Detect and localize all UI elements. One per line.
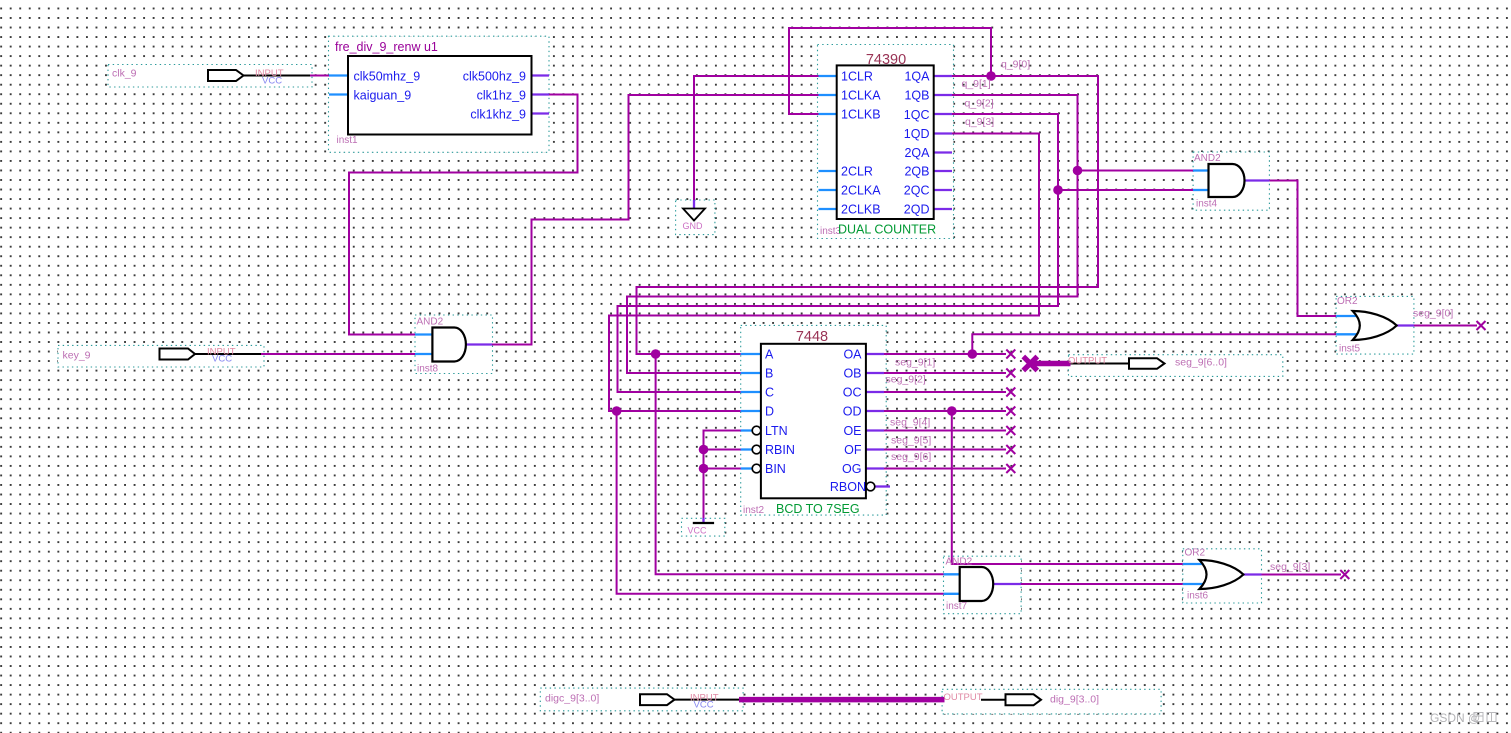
svg-text:1CLKA: 1CLKA bbox=[841, 89, 881, 103]
wire branch q_9[2] to AND2 inst4 input2 bbox=[1058, 189, 1193, 191]
x mark OG bbox=[1006, 464, 1015, 473]
pin stub 1QC bbox=[934, 113, 952, 115]
junction dot RBIN row bbox=[699, 445, 709, 455]
svg-text:OR2: OR2 bbox=[1337, 296, 1358, 307]
pin stub LTN bbox=[741, 429, 752, 431]
selection box key_9 input pin bbox=[58, 345, 264, 367]
junction dot q_9[1] to inst4 bbox=[1073, 166, 1083, 176]
svg-text:LTN: LTN bbox=[765, 424, 788, 438]
pin stub 2QA bbox=[934, 151, 952, 153]
svg-text:D: D bbox=[765, 405, 774, 419]
wire net seg_9[1] OA bbox=[884, 353, 1006, 355]
svg-text:seg_9[1]: seg_9[1] bbox=[895, 357, 935, 369]
svg-text:2QC: 2QC bbox=[904, 184, 930, 198]
svg-text:seg_9[6]: seg_9[6] bbox=[891, 451, 931, 463]
block 7448 body bbox=[761, 344, 866, 499]
svg-text:OB: OB bbox=[843, 367, 861, 381]
svg-text:fre_div_9_renw u1: fre_div_9_renw u1 bbox=[335, 40, 438, 54]
svg-text:kaiguan_9: kaiguan_9 bbox=[354, 89, 412, 103]
pin stub OD bbox=[866, 410, 884, 412]
svg-text:VCC: VCC bbox=[694, 700, 714, 711]
bus wire bold X to seg_9 output pin bbox=[1033, 361, 1071, 367]
svg-text:OC: OC bbox=[843, 386, 862, 400]
svg-text:clk500hz_9: clk500hz_9 bbox=[463, 70, 526, 84]
pin stub RBIN bbox=[741, 448, 752, 450]
input stub AND2 inst8 in2 bbox=[415, 353, 433, 355]
input stub AND2 inst4 in1 bbox=[1193, 169, 1209, 171]
junction dot D row to inst7 bbox=[612, 406, 622, 416]
pin stub 7448 A bbox=[741, 353, 761, 355]
input pin symbol digc_9 bbox=[640, 694, 739, 705]
input stub AND2 inst7 in2 bbox=[944, 593, 961, 595]
svg-text:1QD: 1QD bbox=[904, 127, 930, 141]
selection box VCC symbol bbox=[682, 518, 725, 536]
pin stub 7448 B bbox=[741, 372, 761, 374]
pin stub 2CLKA bbox=[819, 189, 838, 191]
svg-text:7448: 7448 bbox=[796, 329, 828, 345]
svg-text:2QD: 2QD bbox=[904, 203, 930, 217]
op gate OR2 inst6 bbox=[1199, 560, 1243, 589]
wire LTN RBIN BIN to VCC bbox=[704, 431, 752, 519]
pin stub clk1khz_9 bbox=[532, 112, 550, 114]
wire net OC bbox=[884, 391, 1006, 393]
bold x bus connector seg_9 bbox=[1023, 357, 1037, 371]
ground symbol GND bbox=[683, 209, 705, 221]
pin stub OA bbox=[866, 353, 884, 355]
svg-text:inst6: inst6 bbox=[1187, 591, 1209, 602]
x mark seg_9[3] bbox=[1340, 570, 1349, 579]
bus wire digc_9 input to dig_9 output bbox=[739, 697, 945, 703]
svg-text:BIN: BIN bbox=[765, 462, 786, 476]
x mark seg_9[6] bbox=[1006, 445, 1015, 454]
watermark cjk glyphs bbox=[1474, 713, 1496, 722]
pin stub 7448 D bbox=[741, 410, 761, 412]
wire net seg_9[5] OE bbox=[884, 430, 1006, 432]
output pin symbol seg_9 bbox=[1071, 358, 1165, 369]
wire branch q_9[1] to AND2 inst4 input1 bbox=[1078, 170, 1194, 172]
output pin symbol dig_9 bbox=[981, 694, 1041, 705]
pin stub clk500hz_9 bbox=[532, 74, 550, 76]
svg-text:OR2: OR2 bbox=[1185, 548, 1206, 559]
pin stub 1QB bbox=[934, 94, 952, 96]
svg-text:1QB: 1QB bbox=[904, 89, 929, 103]
svg-text:seg_9[5]: seg_9[5] bbox=[891, 435, 931, 447]
svg-text:dig_9[3..0]: dig_9[3..0] bbox=[1050, 694, 1099, 706]
selection box clk_9 input pin bbox=[108, 65, 312, 88]
wire net OG bbox=[884, 468, 1006, 470]
wire OR2 inst6 output seg_9[3] bbox=[1262, 574, 1342, 576]
svg-text:2CLKB: 2CLKB bbox=[841, 203, 881, 217]
input stub OR2 inst5 in2 bbox=[1336, 333, 1359, 335]
svg-text:1CLR: 1CLR bbox=[841, 70, 873, 84]
input pin symbol key_9 bbox=[160, 349, 262, 360]
svg-text:2CLR: 2CLR bbox=[841, 165, 873, 179]
svg-text:seg_9[2]: seg_9[2] bbox=[886, 374, 926, 386]
junction dot q_9[2] to inst4 bbox=[1053, 185, 1063, 195]
svg-text:clk50mhz_9: clk50mhz_9 bbox=[354, 70, 421, 84]
block 74390 body bbox=[837, 65, 934, 219]
svg-text:seg_9[0]: seg_9[0] bbox=[1413, 308, 1453, 320]
svg-text:q_9[1]: q_9[1] bbox=[962, 78, 991, 90]
wire net q_9[1] 1QB to 7448 B bbox=[627, 95, 1078, 373]
svg-text:1CLKB: 1CLKB bbox=[841, 108, 881, 122]
wire clk_9 pin to clk50mhz_9 bbox=[310, 75, 329, 77]
selection box AND2 inst8 bbox=[415, 315, 493, 374]
wire net seg_9[6] OF bbox=[884, 449, 1006, 451]
wire branch q_9[3] to AND2 inst7 input2 bbox=[617, 411, 944, 594]
wire net q_9[3] 1QD to 7448 D bbox=[609, 134, 1039, 412]
selection box seg_9 output pin bbox=[1069, 355, 1283, 377]
wire net q_9[0] 1QA to 7448 A bbox=[637, 76, 1099, 354]
svg-text:B: B bbox=[765, 367, 773, 381]
svg-text:RBIN: RBIN bbox=[765, 443, 795, 457]
wire OR2 inst5 output seg_9[0] bbox=[1414, 325, 1477, 327]
svg-text:2QB: 2QB bbox=[904, 165, 929, 179]
wire net seg_9[4] OD bbox=[884, 410, 1006, 412]
pin bubble LTN bbox=[752, 426, 761, 435]
pin bubble RBON bbox=[866, 482, 875, 491]
pin stub BIN bbox=[741, 467, 752, 469]
pin stub 1QD bbox=[934, 132, 952, 134]
svg-text:1QA: 1QA bbox=[904, 70, 930, 84]
output stub AND2 inst8 bbox=[466, 343, 492, 345]
svg-text:inst7: inst7 bbox=[946, 601, 968, 612]
svg-text:q_9[2]: q_9[2] bbox=[965, 98, 994, 110]
op gate AND2 inst8 bbox=[432, 328, 466, 362]
selection box block u1 fre_div_9_renw bbox=[329, 36, 550, 152]
selection box digc_9 input pin bbox=[540, 688, 743, 711]
output stub OR2 inst6 bbox=[1241, 573, 1262, 575]
wire net q_9[2] 1QC to 7448 C bbox=[618, 114, 1059, 392]
x mark OC bbox=[1006, 388, 1015, 397]
input pin symbol clk_9 bbox=[208, 70, 310, 81]
wire 1CLKB to node q_9[0] top loop bbox=[789, 28, 991, 114]
svg-text:OA: OA bbox=[843, 348, 862, 362]
x mark seg_9[5] bbox=[1006, 426, 1015, 435]
junction dot OA row to inst5 bbox=[968, 349, 978, 359]
junction dot OD row to inst6 bbox=[947, 406, 957, 416]
junction dot A row to inst7 bbox=[651, 349, 661, 359]
pin stub clk1hz_9 bbox=[532, 93, 550, 95]
wire net seg_9[2] OB bbox=[884, 372, 1006, 374]
pin stub 1CLR bbox=[819, 75, 838, 77]
pin stub 2CLKB bbox=[819, 208, 838, 210]
pin stub 7448 C bbox=[741, 391, 761, 393]
wire AND2 inst4 output to OR2 inst5 input1 bbox=[1269, 181, 1336, 317]
pin stub clk50mhz_9 bbox=[329, 74, 348, 76]
input stub OR2 inst5 in1 bbox=[1336, 315, 1359, 317]
svg-text:OD: OD bbox=[843, 405, 862, 419]
wire branch OA to OR2 inst5 input2 bbox=[972, 334, 1336, 354]
power symbol VCC bar bbox=[693, 522, 714, 524]
selection box AND2 inst7 bbox=[944, 556, 1022, 614]
pin stub OE bbox=[866, 429, 884, 431]
svg-text:clk_9: clk_9 bbox=[112, 68, 137, 80]
wire GND to 1CLR bbox=[694, 76, 819, 201]
x mark seg_9[2] bbox=[1006, 369, 1015, 378]
junction dot BIN row bbox=[699, 464, 709, 474]
svg-text:VCC: VCC bbox=[688, 526, 708, 536]
x mark seg_9[1] bbox=[1006, 350, 1015, 359]
pin stub OF bbox=[866, 448, 884, 450]
selection box 74390 counter bbox=[818, 45, 954, 239]
svg-text:digc_9[3..0]: digc_9[3..0] bbox=[545, 693, 599, 705]
output stub AND2 inst4 bbox=[1245, 179, 1270, 181]
pin stub RBON bbox=[875, 485, 890, 487]
wire branch OD to OR2 inst6 input1 bbox=[952, 411, 1183, 564]
pin bubble BIN bbox=[752, 464, 761, 473]
wire key_9 pin to AND2 inst8 input2 bbox=[261, 353, 415, 355]
stub VCC symbol bbox=[702, 518, 704, 523]
block u1 fre_div_9_renw body bbox=[348, 56, 532, 135]
x mark seg_9[4] bbox=[1006, 407, 1015, 416]
svg-text:74390: 74390 bbox=[866, 52, 906, 68]
pin stub 1QA bbox=[934, 75, 952, 77]
svg-text:clk1khz_9: clk1khz_9 bbox=[470, 108, 526, 122]
svg-text:A: A bbox=[765, 348, 774, 362]
op gate AND2 inst4 bbox=[1209, 164, 1245, 197]
svg-text:seg_9[6..0]: seg_9[6..0] bbox=[1175, 357, 1227, 369]
svg-text:OF: OF bbox=[844, 443, 862, 457]
pin stub 1CLKB bbox=[819, 113, 838, 115]
svg-text:AND2: AND2 bbox=[1194, 153, 1221, 164]
svg-text:AND2: AND2 bbox=[946, 557, 973, 568]
selection box OR2 inst6 bbox=[1183, 549, 1262, 603]
input stub OR2 inst6 in1 bbox=[1183, 563, 1206, 565]
svg-text:OUTPUT: OUTPUT bbox=[944, 692, 983, 703]
svg-text:OG: OG bbox=[842, 462, 861, 476]
svg-text:seg_9[3]: seg_9[3] bbox=[1270, 561, 1310, 573]
junction dot q_9[0] at 1QA bbox=[986, 71, 996, 81]
stub GND symbol bbox=[693, 200, 695, 208]
svg-text:inst5: inst5 bbox=[1339, 344, 1361, 355]
svg-text:RBON: RBON bbox=[830, 480, 866, 494]
pin stub 2QD bbox=[934, 208, 952, 210]
selection box OR2 inst5 bbox=[1336, 296, 1414, 354]
wire clk1hz_9 to AND2 inst8 input1 bbox=[349, 95, 578, 335]
selection box GND symbol bbox=[676, 200, 715, 235]
selection box AND2 inst4 bbox=[1193, 152, 1269, 210]
svg-text:2QA: 2QA bbox=[904, 146, 930, 160]
pin bubble RBIN bbox=[752, 445, 761, 454]
output stub OR2 inst5 bbox=[1397, 324, 1414, 326]
svg-text:inst1: inst1 bbox=[337, 135, 359, 146]
svg-text:inst8: inst8 bbox=[417, 364, 439, 375]
svg-text:GSDN @: GSDN @ bbox=[1430, 711, 1480, 725]
svg-text:q_9[3]: q_9[3] bbox=[965, 116, 994, 128]
pin stub OC bbox=[866, 391, 884, 393]
pin stub 1CLKA bbox=[819, 94, 838, 96]
svg-text:VCC: VCC bbox=[212, 354, 232, 365]
svg-text:1QC: 1QC bbox=[904, 108, 930, 122]
svg-text:VCC: VCC bbox=[262, 76, 282, 87]
svg-text:seg_9[4]: seg_9[4] bbox=[890, 417, 930, 429]
input stub OR2 inst6 in2 bbox=[1183, 583, 1206, 585]
x mark seg_9[0] bbox=[1477, 321, 1486, 330]
wire AND2 inst7 output to OR2 inst6 input2 bbox=[1021, 583, 1183, 585]
input stub AND2 inst4 in2 bbox=[1193, 189, 1209, 191]
svg-text:clk1hz_9: clk1hz_9 bbox=[477, 89, 526, 103]
selection box dig_9 output pin bbox=[942, 689, 1161, 714]
svg-text:2CLKA: 2CLKA bbox=[841, 184, 881, 198]
pin stub 2CLR bbox=[819, 170, 838, 172]
svg-text:OE: OE bbox=[843, 424, 861, 438]
svg-text:key_9: key_9 bbox=[63, 350, 91, 362]
input stub AND2 inst7 in1 bbox=[944, 573, 961, 575]
svg-text:OUTPUT: OUTPUT bbox=[1068, 356, 1107, 367]
output stub AND2 inst7 bbox=[994, 583, 1021, 585]
svg-text:C: C bbox=[765, 386, 774, 400]
pin stub kaiguan_9 bbox=[329, 93, 348, 95]
op gate AND2 inst7 bbox=[960, 567, 994, 601]
svg-text:GND: GND bbox=[683, 221, 704, 231]
wire AND2 inst8 output to 1CLKA bbox=[492, 95, 819, 345]
selection box 7448 decoder bbox=[741, 325, 887, 515]
svg-text:BCD TO 7SEG: BCD TO 7SEG bbox=[776, 502, 860, 516]
wire BIN stub bbox=[704, 468, 752, 470]
pin stub 2QC bbox=[934, 189, 952, 191]
input stub AND2 inst8 in1 bbox=[415, 333, 433, 335]
svg-text:AND2: AND2 bbox=[417, 317, 444, 328]
svg-text:q_9[0]: q_9[0] bbox=[1001, 59, 1030, 71]
op gate OR2 inst5 bbox=[1353, 311, 1397, 340]
wire branch q_9[0] to AND2 inst7 input1 bbox=[656, 354, 944, 574]
pin stub 2QB bbox=[934, 170, 952, 172]
svg-text:inst2: inst2 bbox=[743, 505, 765, 516]
wire RBIN stub bbox=[704, 449, 752, 451]
svg-text:DUAL COUNTER: DUAL COUNTER bbox=[838, 223, 936, 237]
svg-text:inst4: inst4 bbox=[1196, 199, 1218, 210]
pin stub OB bbox=[866, 372, 884, 374]
pin stub OG bbox=[866, 467, 884, 469]
